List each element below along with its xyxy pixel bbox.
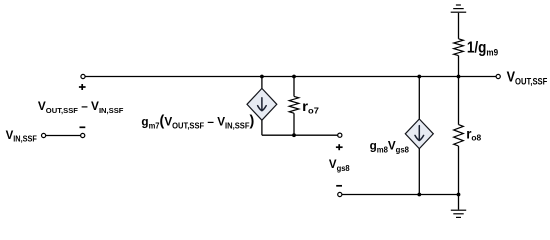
svg-text:gm7(VOUT,SSF – VIN,SSF): gm7(VOUT,SSF – VIN,SSF): [141, 114, 254, 131]
wire gm8 source top lead: [418, 77, 420, 120]
svg-text:ro8: ro8: [466, 126, 481, 142]
wire bottom rail 2: [342, 194, 459, 196]
arrow inside gm8 source: [415, 126, 424, 141]
resistor 1/gm9 zigzag: [454, 39, 464, 56]
minus sign of Vgs8: [336, 185, 342, 187]
minus sign of Vout-Vin: [80, 126, 86, 128]
svg-text:VIN,SSF: VIN,SSF: [6, 128, 38, 144]
wire gm8 source bottom lead: [418, 149, 420, 195]
node junction dot ro8 bottom: [457, 193, 461, 197]
wire ro8 bottom lead: [458, 146, 460, 195]
node junction dot ro7 bottom: [292, 133, 296, 137]
plus sign of Vgs8: [336, 144, 343, 150]
wire bottom rail 1: [262, 134, 338, 136]
ground top (above 1/gm9): [451, 5, 467, 12]
node Vgs8 minus terminal (open circle): [338, 192, 342, 196]
resistor ro7 zigzag: [289, 96, 299, 113]
wire main top rail: [85, 76, 496, 78]
node Vin terminal (open circle left): [42, 133, 46, 137]
svg-text:VOUT,SSF – VIN,SSF: VOUT,SSF – VIN,SSF: [38, 100, 124, 114]
node Vx top-left terminal (open circle): [81, 74, 85, 78]
node junction dot ro8 top: [457, 75, 461, 79]
wire 1/gm9 top lead: [458, 13, 460, 39]
wire ground stub bottom: [458, 195, 460, 210]
wire Vin stub: [46, 135, 81, 137]
plus sign of Vout-Vin: [79, 84, 86, 90]
wire 1/gm9 bottom lead: [458, 56, 460, 77]
node Vin terminal (open circle right): [81, 133, 85, 137]
dependent source gm8Vgs8 diamond: [405, 119, 433, 149]
svg-text:VOUT,SSF: VOUT,SSF: [507, 69, 548, 87]
node Vgs8 plus terminal (open circle): [338, 133, 342, 137]
arrow inside gm7 source: [258, 98, 267, 111]
dependent source gm7(Vout,ssf-Vin,ssf) diamond: [247, 88, 277, 120]
svg-text:ro7: ro7: [302, 100, 319, 116]
node junction dot at gm7 source: [260, 75, 264, 79]
svg-text:1/gm9: 1/gm9: [467, 40, 498, 58]
wire ro8 top lead: [458, 77, 460, 125]
node junction dot gm8 bottom: [417, 193, 421, 197]
node Vout,ssf terminal (open circle): [496, 74, 500, 78]
resistor ro8 zigzag: [454, 125, 464, 146]
node junction dot ro7 top: [292, 75, 296, 79]
wire gm7 source top lead: [261, 77, 263, 89]
wire ro7 top lead: [293, 77, 295, 97]
ground bottom: [451, 210, 466, 217]
svg-text:Vgs8: Vgs8: [329, 157, 350, 173]
node junction dot gm8 top: [417, 75, 421, 79]
wire gm7 source bottom lead: [261, 120, 263, 135]
wire ro7 bottom lead: [293, 113, 295, 135]
svg-text:gm8Vgs8: gm8Vgs8: [370, 140, 410, 155]
